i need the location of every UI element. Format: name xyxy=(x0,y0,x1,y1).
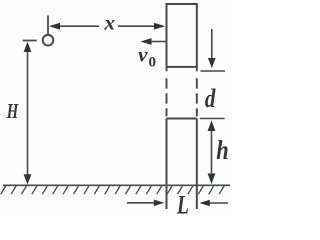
svg-text:0: 0 xyxy=(149,54,157,70)
svg-text:d: d xyxy=(205,84,216,113)
svg-text:x: x xyxy=(103,11,115,35)
svg-text:h: h xyxy=(216,135,229,165)
svg-text:v: v xyxy=(138,45,149,67)
svg-text:H: H xyxy=(6,99,19,123)
svg-text:L: L xyxy=(176,190,189,215)
